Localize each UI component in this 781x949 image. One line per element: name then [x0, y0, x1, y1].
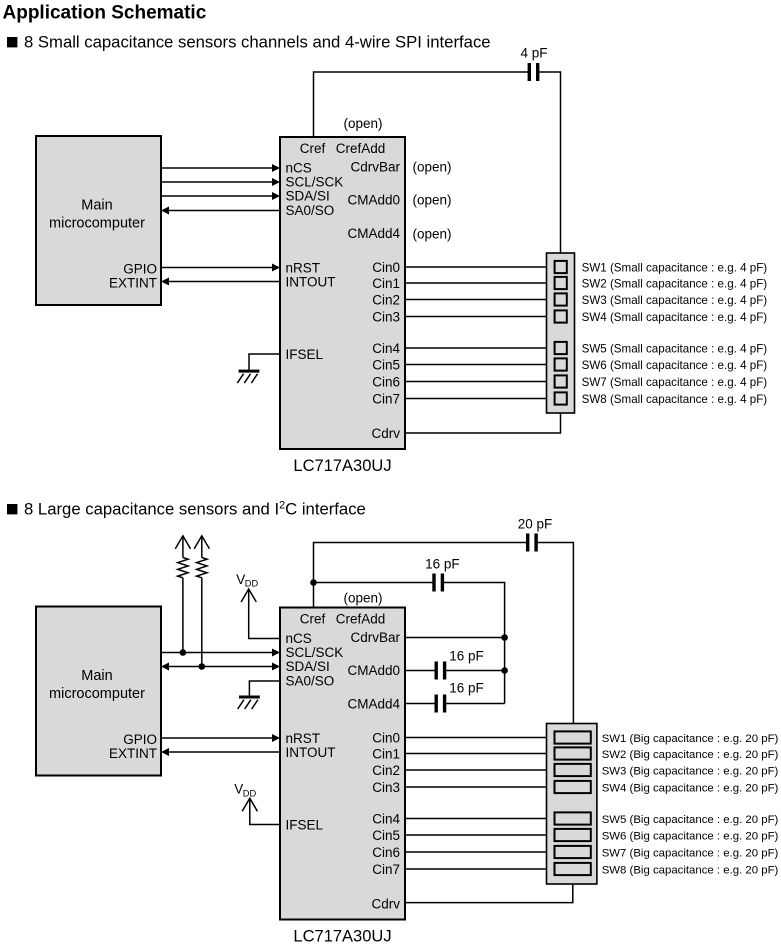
switch pad SW6 (small) [555, 358, 567, 370]
switch pad SW2 (small) [555, 277, 567, 289]
wire Cin6 to SW7 [405, 381, 555, 383]
section bullet 2 [7, 504, 17, 514]
svg-text:GPIO: GPIO [123, 732, 157, 747]
svg-text:CdrvBar: CdrvBar [350, 160, 400, 175]
svg-text:nCS: nCS [286, 631, 312, 646]
svg-text:LC717A30UJ: LC717A30UJ [293, 457, 391, 475]
section bullet 1 [7, 37, 17, 47]
svg-text:SDA/SI: SDA/SI [286, 189, 330, 204]
arrow into nCS [272, 164, 280, 172]
arrow into SCL/SCK [272, 178, 280, 186]
svg-text:(open): (open) [343, 591, 382, 606]
svg-text:SW3 (Small capacitance : e.g.: SW3 (Small capacitance : e.g. 4 pF) [582, 294, 768, 307]
IC U1 LC717A30UJ body [280, 608, 405, 920]
svg-text:CdrvBar: CdrvBar [350, 630, 400, 645]
wire Cin4 to SW5 (big) [405, 818, 555, 820]
svg-text:CMAdd0: CMAdd0 [347, 663, 400, 678]
arrow into nRST [272, 264, 280, 272]
wire C5 to net [446, 703, 505, 705]
wire GPIO to nRST (I2C) [161, 737, 274, 739]
capacitor C1 4 pF [528, 63, 531, 81]
svg-text:SW5 (Small capacitance : e.g.: SW5 (Small capacitance : e.g. 4 pF) [582, 342, 768, 355]
wire Cref branch to C3 [314, 582, 433, 584]
svg-text:microcomputer: microcomputer [49, 216, 145, 232]
svg-text:CMAdd4: CMAdd4 [347, 696, 400, 711]
wire Cin7 to SW8 (big) [405, 868, 555, 870]
wire C4 to net [446, 670, 505, 672]
svg-text:Cin0: Cin0 [372, 260, 400, 275]
svg-text:DD: DD [243, 788, 257, 798]
wire SDA/SI to microcomputer (I2C) [167, 666, 274, 668]
wire SDA/SI from microcomputer [161, 195, 274, 197]
svg-text:Cdrv: Cdrv [371, 896, 400, 911]
wire VDD to IFSEL [250, 798, 280, 824]
capacitor C5 16 pF [435, 695, 438, 713]
wire INTOUT to EXTINT (I2C) [167, 751, 280, 753]
capacitor C4 16 pF [435, 662, 438, 680]
wire SA0/SO to microcomputer [167, 210, 280, 212]
svg-text:SW1 (Small capacitance : e.g.: SW1 (Small capacitance : e.g. 4 pF) [582, 261, 768, 274]
switch pad SW6 (big) [555, 829, 591, 841]
wire Cin6 to SW7 (big) [405, 851, 555, 853]
junction SCL pull-up [180, 649, 187, 656]
svg-text:SW4 (Small capacitance : e.g.: SW4 (Small capacitance : e.g. 4 pF) [582, 311, 768, 324]
wire Cin4 to SW5 [405, 347, 555, 349]
wire Cin0 to SW1 (big) [405, 737, 555, 739]
svg-text:Cin4: Cin4 [372, 811, 400, 826]
wire Cin3 to SW4 [405, 316, 555, 318]
svg-text:EXTINT: EXTINT [109, 275, 157, 290]
capacitor C2 20 pF [526, 534, 529, 552]
svg-text:Cin6: Cin6 [372, 845, 400, 860]
wire CMAdd0 to C4 [405, 670, 435, 672]
wire INTOUT to EXTINT [167, 281, 280, 283]
svg-text:Main: Main [81, 668, 112, 684]
svg-text:20 pF: 20 pF [518, 516, 553, 531]
wire C1 to Cdrv net vertical [539, 72, 561, 253]
wire SCL/SCK from microcomputer [161, 181, 274, 183]
wire C2 to Cdrv net vertical (I2C) [537, 543, 573, 724]
wire Cin2 to SW3 [405, 299, 555, 301]
svg-text:IFSEL: IFSEL [286, 817, 324, 832]
arrow into microcomputer from SDA/SI (I2C) [161, 663, 169, 671]
svg-text:nRST: nRST [286, 260, 321, 275]
svg-text:Cref: Cref [300, 141, 326, 156]
svg-text:Cin3: Cin3 [372, 309, 400, 324]
pull-up resistor R2 (SDA) [194, 536, 209, 549]
svg-text:Cin7: Cin7 [372, 391, 400, 406]
svg-text:LC717A30UJ: LC717A30UJ [293, 928, 391, 946]
ground symbol SA0/SO [239, 696, 260, 699]
arrow into EXTINT [161, 278, 169, 286]
svg-text:Cin5: Cin5 [372, 357, 400, 372]
switch pad SW4 (big) [555, 781, 591, 793]
svg-text:Cdrv: Cdrv [371, 426, 400, 441]
svg-text:Cin2: Cin2 [372, 292, 400, 307]
svg-text:8 Small capacitance sensors ch: 8 Small capacitance sensors channels and… [24, 33, 491, 52]
svg-text:SW5 (Big capacitance : e.g. 20: SW5 (Big capacitance : e.g. 20 pF) [602, 814, 779, 826]
svg-text:Cin1: Cin1 [372, 276, 400, 291]
capacitor C3 16 pF [432, 574, 435, 592]
svg-text:SW7 (Small capacitance : e.g.: SW7 (Small capacitance : e.g. 4 pF) [582, 376, 768, 389]
svg-text:nRST: nRST [286, 731, 321, 746]
switch pad SW7 (big) [555, 846, 591, 858]
junction CdrvBar net [501, 634, 508, 641]
switch pad SW2 (big) [555, 747, 591, 759]
switch pad SW8 (big) [555, 863, 591, 875]
switch pad SW3 (small) [555, 293, 567, 305]
svg-text:Cin3: Cin3 [372, 780, 400, 795]
ground symbol IFSEL [239, 370, 260, 373]
touch switch block (big) [547, 724, 597, 885]
svg-text:Cref: Cref [300, 611, 326, 626]
wire Cin7 to SW8 [405, 398, 555, 400]
wire Cin0 to SW1 [405, 266, 555, 268]
svg-text:SW8 (Big capacitance : e.g. 20: SW8 (Big capacitance : e.g. 20 pF) [602, 864, 779, 876]
arrow into EXTINT (I2C) [161, 748, 169, 756]
switch pad SW3 (big) [555, 764, 591, 776]
wire SCL/SCK from microcomputer (I2C) [161, 652, 274, 654]
svg-text:SCL/SCK: SCL/SCK [286, 175, 344, 190]
svg-text:SW7 (Big capacitance : e.g. 20: SW7 (Big capacitance : e.g. 20 pF) [602, 847, 779, 859]
svg-text:SDA/SI: SDA/SI [286, 659, 330, 674]
main microcomputer block (SPI) [36, 136, 161, 305]
wire Cref net up and across [314, 72, 529, 137]
wire Cin5 to SW6 [405, 364, 555, 366]
svg-text:Cin1: Cin1 [372, 746, 400, 761]
wire Cin5 to SW6 (big) [405, 834, 555, 836]
svg-text:(open): (open) [413, 193, 452, 208]
arrow into SDA/SI (I2C) [272, 663, 280, 671]
svg-text:SW2 (Small capacitance : e.g.: SW2 (Small capacitance : e.g. 4 pF) [582, 277, 768, 290]
svg-text:nCS: nCS [286, 161, 312, 176]
svg-text:16 pF: 16 pF [449, 681, 484, 696]
svg-text:Application Schematic: Application Schematic [3, 3, 207, 24]
svg-text:Main: Main [81, 197, 112, 213]
wire C3 to CdrvBar net [444, 583, 505, 704]
wire VDD to nCS [249, 589, 280, 639]
switch pad SW4 (small) [555, 310, 567, 322]
svg-text:INTOUT: INTOUT [286, 745, 336, 760]
arrow into SDA/SI [272, 192, 280, 200]
switch pad SW7 (small) [555, 375, 567, 387]
wire Cin2 to SW3 (big) [405, 769, 555, 771]
svg-text:SCL/SCK: SCL/SCK [286, 645, 344, 660]
arrow into microcomputer from SA0/SO [161, 207, 169, 215]
svg-text:CMAdd4: CMAdd4 [347, 226, 400, 241]
svg-text:16 pF: 16 pF [449, 648, 484, 663]
wire nCS from microcomputer [161, 167, 274, 169]
wire CdrvBar to net [405, 637, 505, 639]
svg-text:IFSEL: IFSEL [286, 347, 324, 362]
svg-text:Cin5: Cin5 [372, 828, 400, 843]
svg-text:SA0/SO: SA0/SO [286, 674, 335, 689]
svg-text:SA0/SO: SA0/SO [286, 203, 335, 218]
svg-text:INTOUT: INTOUT [286, 274, 336, 289]
svg-text:Cin7: Cin7 [372, 862, 400, 877]
touch switch block (small) [547, 253, 575, 413]
wire Cin1 to SW2 [405, 282, 555, 284]
svg-text:CrefAdd: CrefAdd [336, 141, 386, 156]
junction SDA pull-up [199, 663, 206, 670]
svg-text:DD: DD [245, 579, 259, 589]
svg-text:SW4 (Big capacitance : e.g. 20: SW4 (Big capacitance : e.g. 20 pF) [602, 782, 779, 794]
svg-text:4 pF: 4 pF [520, 46, 547, 61]
switch pad SW5 (small) [555, 342, 567, 354]
wire Cdrv to switch block [405, 413, 561, 433]
wire SA0/SO to ground [249, 681, 280, 696]
svg-text:16 pF: 16 pF [425, 557, 460, 572]
wire GPIO to nRST [161, 267, 274, 269]
svg-text:SW1 (Big capacitance : e.g. 20: SW1 (Big capacitance : e.g. 20 pF) [602, 733, 779, 745]
svg-text:CMAdd0: CMAdd0 [347, 193, 400, 208]
junction Cref / 16pF branch [310, 579, 317, 586]
svg-text:SW3 (Big capacitance : e.g. 20: SW3 (Big capacitance : e.g. 20 pF) [602, 765, 779, 777]
svg-text:EXTINT: EXTINT [109, 746, 157, 761]
svg-text:(open): (open) [343, 116, 382, 131]
switch pad SW1 (small) [555, 261, 567, 273]
svg-text:SW6 (Small capacitance : e.g.: SW6 (Small capacitance : e.g. 4 pF) [582, 359, 768, 372]
wire IFSEL to ground [249, 354, 280, 370]
svg-text:8 Large capacitance sensors an: 8 Large capacitance sensors and I2C inte… [24, 500, 366, 519]
main microcomputer block (I2C) [36, 607, 161, 776]
svg-text:CrefAdd: CrefAdd [336, 611, 386, 626]
switch pad SW8 (small) [555, 392, 567, 404]
svg-text:Cin4: Cin4 [372, 341, 400, 356]
switch pad SW1 (big) [555, 731, 591, 743]
svg-text:(open): (open) [413, 226, 452, 241]
svg-text:GPIO: GPIO [123, 261, 157, 276]
arrow into SCL/SCK (I2C) [272, 649, 280, 657]
wire CMAdd4 to C5 [405, 703, 435, 705]
svg-text:Cin0: Cin0 [372, 730, 400, 745]
svg-text:Cin6: Cin6 [372, 374, 400, 389]
wire Cdrv to switch block (big) [405, 884, 573, 903]
wire Cin1 to SW2 (big) [405, 753, 555, 755]
svg-text:(open): (open) [413, 160, 452, 175]
svg-text:SW6 (Big capacitance : e.g. 20: SW6 (Big capacitance : e.g. 20 pF) [602, 830, 779, 842]
wire Cin3 to SW4 (big) [405, 786, 555, 788]
switch pad SW5 (big) [555, 812, 591, 824]
svg-text:microcomputer: microcomputer [49, 686, 145, 702]
pull-up resistor R1 (SCL) [175, 536, 190, 549]
wire Cref net up and across (I2C) [314, 543, 527, 608]
svg-text:SW8 (Small capacitance : e.g.: SW8 (Small capacitance : e.g. 4 pF) [582, 393, 768, 406]
svg-text:Cin2: Cin2 [372, 763, 400, 778]
svg-text:SW2 (Big capacitance : e.g. 20: SW2 (Big capacitance : e.g. 20 pF) [602, 749, 779, 761]
arrow into nRST (I2C) [272, 734, 280, 742]
IC U1 LC717A30UJ body [280, 137, 405, 449]
junction CMAdd0 net [501, 667, 508, 674]
